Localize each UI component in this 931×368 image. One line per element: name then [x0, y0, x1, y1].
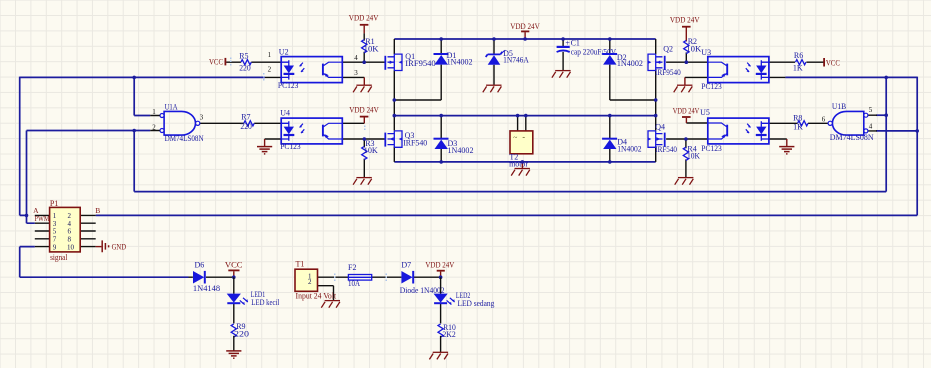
- svg-text:GND: GND: [112, 242, 127, 251]
- svg-text:DM74LS08N: DM74LS08N: [830, 133, 874, 142]
- svg-text:6: 6: [822, 115, 826, 123]
- svg-text:VDD 24V: VDD 24V: [425, 261, 454, 270]
- junction: D3 on motor rail: [439, 114, 443, 118]
- junction: U1B pin5 on vertical A: [884, 113, 888, 117]
- power port VDD 24V (row2 left): [349, 105, 379, 123]
- svg-text:1K: 1K: [793, 123, 803, 132]
- wire: P1 right pin stubs: [80, 215, 96, 246]
- junction: left leg on motor rail: [393, 114, 397, 118]
- wire: U1B pin5 link: [876, 114, 886, 116]
- wire: long feedback run y=191: [134, 191, 886, 193]
- junction: Q1 source / D1: [393, 98, 397, 102]
- svg-text:-: -: [522, 133, 525, 142]
- wire: T2 motor stubs: [518, 116, 526, 131]
- svg-text:VCC: VCC: [826, 58, 840, 67]
- diode D3 1N4002: [434, 139, 474, 156]
- diode D2 1N4002: [602, 53, 643, 68]
- resistor R1: [362, 33, 379, 62]
- svg-text:7: 7: [53, 236, 57, 244]
- wire: Q3 source lead: [393, 147, 395, 162]
- ground (hatched) below T2: [511, 162, 530, 176]
- resistor R6: [793, 51, 806, 72]
- svg-text:1N746A: 1N746A: [503, 56, 529, 65]
- svg-text:R8: R8: [793, 114, 802, 123]
- svg-text:10K: 10K: [687, 151, 700, 160]
- svg-text:2K2: 2K2: [442, 330, 455, 339]
- svg-text:2: 2: [308, 278, 312, 286]
- svg-text:2: 2: [268, 66, 272, 74]
- wire: VCC to U2 pin1 link: [226, 62, 281, 77]
- junction: R2 / Q2 gate / U3 pin4: [685, 60, 689, 64]
- wire: P1 pin2 long run y=215: [96, 214, 918, 216]
- svg-text:U1B: U1B: [832, 102, 846, 111]
- power port VDD 24V (top left): [349, 14, 379, 34]
- wire: P1 pin9 to LED chain: [20, 247, 35, 278]
- svg-text:2: 2: [68, 212, 72, 220]
- resistor R2: [684, 37, 702, 62]
- svg-text:F2: F2: [348, 263, 356, 272]
- resistor R7: [240, 113, 254, 131]
- wire: U1A pin1 branch: [134, 77, 150, 115]
- wire: U2 pin3 stub: [342, 76, 364, 78]
- optocoupler U5 PC123: [700, 108, 769, 153]
- junction: D3 on ground rail: [439, 160, 443, 164]
- svg-text:cap 220uF/50V: cap 220uF/50V: [571, 48, 616, 57]
- ground (hatched) below D5: [483, 85, 502, 92]
- wire: right vertical A: [885, 77, 887, 191]
- LED LED2: [434, 277, 495, 323]
- wire: right outer vertical B: [916, 77, 918, 216]
- svg-text:1N4002: 1N4002: [447, 58, 473, 67]
- diode D6 1N4148: [193, 260, 220, 292]
- svg-text:VDD 24V: VDD 24V: [349, 105, 379, 114]
- svg-text:220: 220: [239, 63, 251, 72]
- transistor Q3 IRF540: [385, 131, 427, 148]
- svg-text:Input 24 Volt: Input 24 Volt: [296, 291, 337, 300]
- ground (bars) at U4 pin2: [257, 139, 272, 154]
- junction: U1B pin4 on vertical B: [915, 129, 919, 133]
- power port VCC (above LED1): [225, 261, 243, 278]
- wire: U1A out to R7 to U4 pin1: [200, 122, 281, 124]
- svg-text:1N4002: 1N4002: [448, 146, 474, 155]
- junction: D1 on top rail: [439, 37, 443, 41]
- svg-text:R5: R5: [239, 52, 248, 61]
- optocoupler U3 PC123: [701, 48, 769, 91]
- svg-text:~: ~: [513, 133, 517, 142]
- svg-text:1: 1: [152, 108, 156, 116]
- ground (hatched) below R3: [353, 178, 372, 185]
- svg-text:VDD 24V: VDD 24V: [670, 15, 700, 24]
- wire: D3 leads: [440, 116, 442, 162]
- svg-text:T1: T1: [296, 260, 305, 269]
- power port VDD 24V (bottom): [425, 261, 454, 278]
- wire: U5 pin4 to VDD: [686, 122, 707, 124]
- wire: bottom ground rail: [394, 161, 655, 163]
- wire: U1B output pin: [827, 122, 829, 124]
- wire: P1 left pin stubs: [35, 215, 50, 246]
- ground (hatched) below R10: [429, 352, 448, 359]
- wire: U3 pin2 stub: [769, 76, 786, 78]
- svg-text:1N4002: 1N4002: [617, 59, 643, 68]
- wire: jog to P1 pin3: [20, 131, 35, 224]
- junction: VDD / D7 / LED2 node: [439, 275, 443, 279]
- junction: R1 / U2 pin4 / Q1 gate: [362, 60, 366, 64]
- junction: VCC / D6 / LED1 node: [232, 275, 236, 279]
- svg-text:6: 6: [68, 228, 72, 236]
- wire: U2 pin2 long run y=77: [20, 76, 265, 78]
- svg-text:10A: 10A: [348, 279, 360, 288]
- wire: D5 leads: [493, 39, 495, 85]
- resistor R9: [231, 322, 249, 350]
- power port VDD 24V (top centre): [510, 22, 540, 39]
- svg-text:IRF9540: IRF9540: [655, 68, 681, 77]
- junction: D5 on top rail: [492, 37, 496, 41]
- ground (hatched) at U3 pin3: [674, 77, 693, 92]
- ground (bars) below R9: [226, 351, 241, 358]
- svg-text:U2: U2: [279, 47, 289, 56]
- svg-text:4: 4: [869, 123, 873, 131]
- svg-text:P1: P1: [50, 199, 58, 208]
- LED LED1: [227, 277, 280, 323]
- connector P1: [50, 199, 81, 262]
- wire: motor rail: [394, 115, 655, 117]
- junction: D2 on top rail: [608, 37, 612, 41]
- power port VCC (left): [209, 57, 226, 66]
- svg-text:D7: D7: [401, 260, 411, 269]
- svg-text:PC123: PC123: [278, 81, 299, 90]
- power port VCC (right): [824, 58, 840, 67]
- wire: T1 pin1 to fuse: [318, 276, 349, 278]
- svg-text:B: B: [95, 206, 100, 215]
- wire: U4 pin2 stub: [265, 138, 282, 140]
- svg-text:Q2: Q2: [663, 44, 673, 53]
- ground (hatched) below C1: [552, 71, 571, 78]
- wire: U5 pin1 to R8: [769, 122, 829, 124]
- fuse F2: [348, 263, 372, 288]
- AND gate U1A DM74LS08N: [150, 102, 204, 143]
- wire: U3 pin3 stub: [685, 76, 708, 78]
- resistor R5: [239, 52, 251, 73]
- svg-text:220: 220: [240, 122, 252, 131]
- svg-text:2: 2: [152, 124, 156, 132]
- junction: vertical A on y77 run: [884, 76, 888, 80]
- wire: bottom long run y=277: [20, 276, 189, 278]
- junction: V3a on y77 run: [132, 76, 136, 80]
- svg-text:9: 9: [53, 243, 57, 251]
- junction: VDD on top rail: [523, 37, 527, 41]
- wire: U1A pin2 run: [27, 130, 151, 132]
- wire: Q4 gate to U5 pin3: [666, 138, 708, 140]
- svg-text:Q4: Q4: [655, 123, 665, 132]
- svg-text:PC123: PC123: [701, 144, 722, 153]
- svg-text:1N4002: 1N4002: [617, 144, 641, 153]
- motor T2: [509, 131, 533, 169]
- power port VDD 24V (top right): [670, 15, 700, 41]
- junction: Q2 source / D2: [654, 98, 658, 102]
- diode D4 1N4002: [602, 138, 642, 154]
- power port VDD 24V (row2 right): [673, 107, 700, 123]
- compile markers (dotted): [230, 58, 387, 282]
- svg-text:PC123: PC123: [280, 142, 301, 151]
- svg-text:VDD 24V: VDD 24V: [349, 14, 379, 23]
- wire: U2 pin4 to Q1 gate: [342, 61, 385, 63]
- power port GND at P1 pin10: [96, 240, 127, 252]
- optocoupler U2 PC123: [268, 47, 359, 90]
- svg-text:10: 10: [67, 243, 75, 251]
- svg-text:5: 5: [53, 228, 57, 236]
- svg-text:3: 3: [200, 114, 204, 122]
- transistor Q2 IRF9540: [648, 44, 681, 77]
- svg-text:1: 1: [53, 212, 57, 220]
- junction: C1 on top rail: [561, 37, 565, 41]
- AND gate U1B DM74LS08N: [822, 102, 874, 142]
- svg-text:4: 4: [354, 54, 358, 62]
- svg-text:10K: 10K: [364, 44, 379, 53]
- svg-text:PWM: PWM: [35, 214, 50, 223]
- wire: Q1 drain lead: [393, 39, 395, 54]
- svg-text:C1: C1: [571, 39, 580, 48]
- wire: fuse to D7: [372, 276, 402, 278]
- svg-text:U3: U3: [701, 48, 711, 57]
- wire: U3 pin2 run y=77: [785, 76, 917, 78]
- svg-text:IRF9540: IRF9540: [405, 59, 435, 68]
- svg-text:R7: R7: [241, 113, 250, 122]
- junction: R3 / U4 pin3 / Q3 gate: [363, 137, 367, 141]
- wire: Q2 gate to U3 pin4: [666, 61, 708, 63]
- svg-text:3: 3: [354, 69, 358, 77]
- ground (hatched) below R4: [675, 178, 694, 185]
- svg-text:PC123: PC123: [701, 82, 722, 91]
- zener D5 1N746A: [486, 49, 529, 65]
- wire: U3 pin1 to R6 to VCC: [769, 61, 824, 63]
- transistor Q1 IRF9540: [385, 52, 435, 70]
- svg-text:U1A: U1A: [165, 102, 178, 111]
- svg-text:10K: 10K: [686, 45, 701, 54]
- wire: U1B pin4 link: [876, 130, 917, 132]
- wire: U1B input pins: [868, 115, 877, 131]
- ground (hatched) at U2 pin3: [353, 77, 372, 92]
- svg-text:4: 4: [68, 220, 72, 228]
- transistor Q4 IRF540: [648, 123, 677, 155]
- ground (bars) at U5 pin2: [779, 139, 794, 154]
- junction: V3b on pin2 run: [132, 129, 136, 133]
- svg-text:LED kecil: LED kecil: [251, 298, 280, 307]
- junction: right leg on motor rail: [654, 114, 658, 118]
- svg-text:VCC: VCC: [209, 57, 223, 66]
- svg-text:5: 5: [869, 106, 873, 114]
- wire: D2 leads: [610, 39, 656, 100]
- ground (hatched) below T1 pin2: [321, 301, 340, 308]
- junction: R4 / Q4 gate / U5 pin3: [684, 137, 688, 141]
- wire: D7 to VDD node: [413, 276, 441, 278]
- wire: U5 pin2 stub: [769, 138, 787, 140]
- svg-text:1K: 1K: [793, 63, 803, 72]
- resistor R8: [793, 114, 808, 132]
- junction: T2 pin a on motor rail: [516, 114, 520, 118]
- wire: D4 leads: [609, 116, 611, 162]
- wire: Q2 drain lead: [655, 39, 657, 54]
- svg-text:D6: D6: [195, 260, 205, 269]
- svg-text:motor: motor: [509, 160, 528, 169]
- svg-text:VCC: VCC: [225, 261, 243, 270]
- wire: top +24V rail: [394, 38, 655, 40]
- junction: D4 on motor rail: [608, 114, 612, 118]
- wire: U1A pin2 net drop V3b: [133, 131, 135, 192]
- transformer T1: [295, 260, 337, 301]
- svg-text:R6: R6: [794, 51, 803, 60]
- wire: T1 pin2 drop: [318, 286, 334, 301]
- wire: U4 pin3 to Q3 gate: [342, 138, 385, 140]
- svg-text:VDD 24V: VDD 24V: [673, 107, 700, 116]
- svg-text:U4: U4: [280, 109, 290, 118]
- svg-text:IRF540: IRF540: [403, 138, 427, 147]
- wire: Q1 source / Q3 drain column: [393, 70, 395, 130]
- svg-text:IRF540: IRF540: [655, 145, 677, 154]
- diode D1 1N4002: [434, 51, 473, 67]
- svg-text:8: 8: [68, 236, 72, 244]
- svg-text:220: 220: [234, 329, 249, 338]
- junction: T2 ground on rail: [521, 160, 525, 164]
- svg-text:VDD 24V: VDD 24V: [510, 22, 540, 31]
- svg-text:3: 3: [53, 220, 57, 228]
- wire: Q4 source lead: [655, 147, 657, 162]
- resistor R4: [683, 139, 700, 177]
- wire: Q2 source / Q4 drain column: [655, 70, 657, 130]
- diode D7 1N4002: [400, 260, 445, 295]
- wire: U4 pin4 to VDD: [342, 122, 364, 124]
- svg-text:LED sedang: LED sedang: [458, 299, 495, 308]
- capacitor C1: [557, 38, 617, 56]
- resistor R3: [362, 139, 378, 177]
- svg-text:signal: signal: [50, 253, 68, 262]
- wire: left outer vertical V1: [19, 77, 21, 216]
- resistor R10: [438, 323, 456, 352]
- svg-text:DM74LS08N: DM74LS08N: [165, 134, 204, 143]
- junction: D4 on ground rail: [608, 160, 612, 164]
- svg-text:1N4148: 1N4148: [193, 284, 220, 293]
- junction: jog on V2: [25, 214, 29, 218]
- junction: T2 pin b on motor rail: [524, 114, 528, 118]
- wire: C1 leads: [562, 39, 564, 70]
- wire: D1 leads: [394, 39, 441, 100]
- wire: D6 chain: [189, 276, 234, 278]
- svg-text:U5: U5: [700, 108, 710, 117]
- optocoupler U4 PC123: [280, 109, 342, 151]
- svg-text:1: 1: [268, 51, 272, 59]
- svg-text:10K: 10K: [364, 146, 378, 155]
